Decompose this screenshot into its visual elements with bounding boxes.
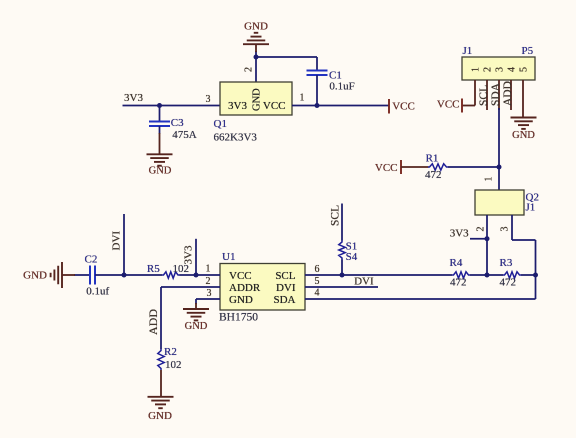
svg-text:2: 2	[244, 67, 255, 72]
svg-text:BH1750: BH1750	[219, 312, 258, 324]
svg-text:ADDR: ADDR	[229, 282, 261, 294]
svg-text:472: 472	[425, 169, 442, 181]
svg-text:VCC: VCC	[229, 270, 252, 282]
svg-text:662K3V3: 662K3V3	[214, 132, 258, 144]
svg-text:J1: J1	[463, 45, 473, 57]
svg-text:Q1: Q1	[214, 118, 227, 130]
svg-text:3: 3	[207, 288, 212, 299]
svg-text:ADD: ADD	[502, 81, 514, 106]
svg-text:DVI: DVI	[354, 275, 374, 287]
svg-text:VCC: VCC	[375, 162, 398, 174]
svg-text:4: 4	[315, 288, 320, 299]
svg-text:472: 472	[500, 277, 517, 289]
svg-text:GND: GND	[244, 21, 268, 33]
svg-text:GND: GND	[149, 165, 172, 176]
svg-text:R4: R4	[450, 257, 463, 269]
svg-text:GND: GND	[148, 410, 172, 422]
svg-text:3V3: 3V3	[183, 245, 195, 264]
svg-text:C3: C3	[171, 117, 184, 129]
svg-text:SCL: SCL	[478, 85, 490, 106]
svg-text:6: 6	[315, 264, 320, 275]
svg-text:3: 3	[206, 94, 211, 105]
svg-text:3V3: 3V3	[228, 100, 247, 112]
svg-text:R3: R3	[500, 257, 513, 269]
svg-text:1: 1	[471, 67, 482, 72]
svg-text:P5: P5	[521, 45, 533, 57]
svg-text:1: 1	[300, 93, 305, 104]
svg-text:R2: R2	[164, 346, 177, 358]
svg-text:SCL: SCL	[275, 270, 295, 282]
svg-text:SDA: SDA	[273, 294, 295, 306]
svg-text:GND: GND	[185, 321, 208, 332]
svg-text:1: 1	[206, 264, 211, 275]
svg-text:J1: J1	[526, 202, 536, 214]
svg-text:2: 2	[476, 227, 487, 232]
svg-text:0.1uf: 0.1uf	[86, 286, 109, 298]
svg-text:GND: GND	[23, 270, 47, 282]
svg-text:4: 4	[507, 67, 518, 72]
svg-text:5: 5	[519, 67, 530, 72]
svg-text:3V3: 3V3	[450, 228, 469, 240]
svg-text:VCC: VCC	[263, 100, 286, 112]
svg-text:GND: GND	[229, 294, 253, 306]
svg-text:1: 1	[484, 177, 495, 182]
svg-text:3: 3	[500, 227, 511, 232]
svg-text:GND: GND	[512, 130, 535, 141]
svg-text:ADD: ADD	[146, 309, 160, 335]
svg-text:GND: GND	[252, 88, 263, 111]
svg-text:3V3: 3V3	[124, 92, 143, 104]
svg-text:SDA: SDA	[490, 82, 502, 106]
svg-text:475A: 475A	[172, 129, 197, 141]
svg-text:C2: C2	[85, 253, 98, 265]
svg-text:VCC: VCC	[437, 99, 460, 111]
svg-text:VCC: VCC	[392, 101, 415, 113]
svg-text:SCL: SCL	[330, 205, 342, 226]
svg-text:0.1uF: 0.1uF	[329, 80, 354, 92]
svg-text:U1: U1	[222, 251, 235, 263]
svg-text:R5: R5	[147, 263, 160, 275]
svg-text:R1: R1	[426, 152, 439, 164]
svg-text:DVI: DVI	[111, 231, 123, 251]
svg-text:3: 3	[495, 67, 506, 72]
svg-text:5: 5	[315, 276, 320, 287]
svg-text:S4: S4	[346, 251, 358, 263]
svg-text:DVI: DVI	[276, 282, 296, 294]
svg-text:102: 102	[165, 359, 182, 371]
svg-text:472: 472	[450, 277, 467, 289]
svg-text:2: 2	[483, 67, 494, 72]
svg-text:2: 2	[206, 276, 211, 287]
